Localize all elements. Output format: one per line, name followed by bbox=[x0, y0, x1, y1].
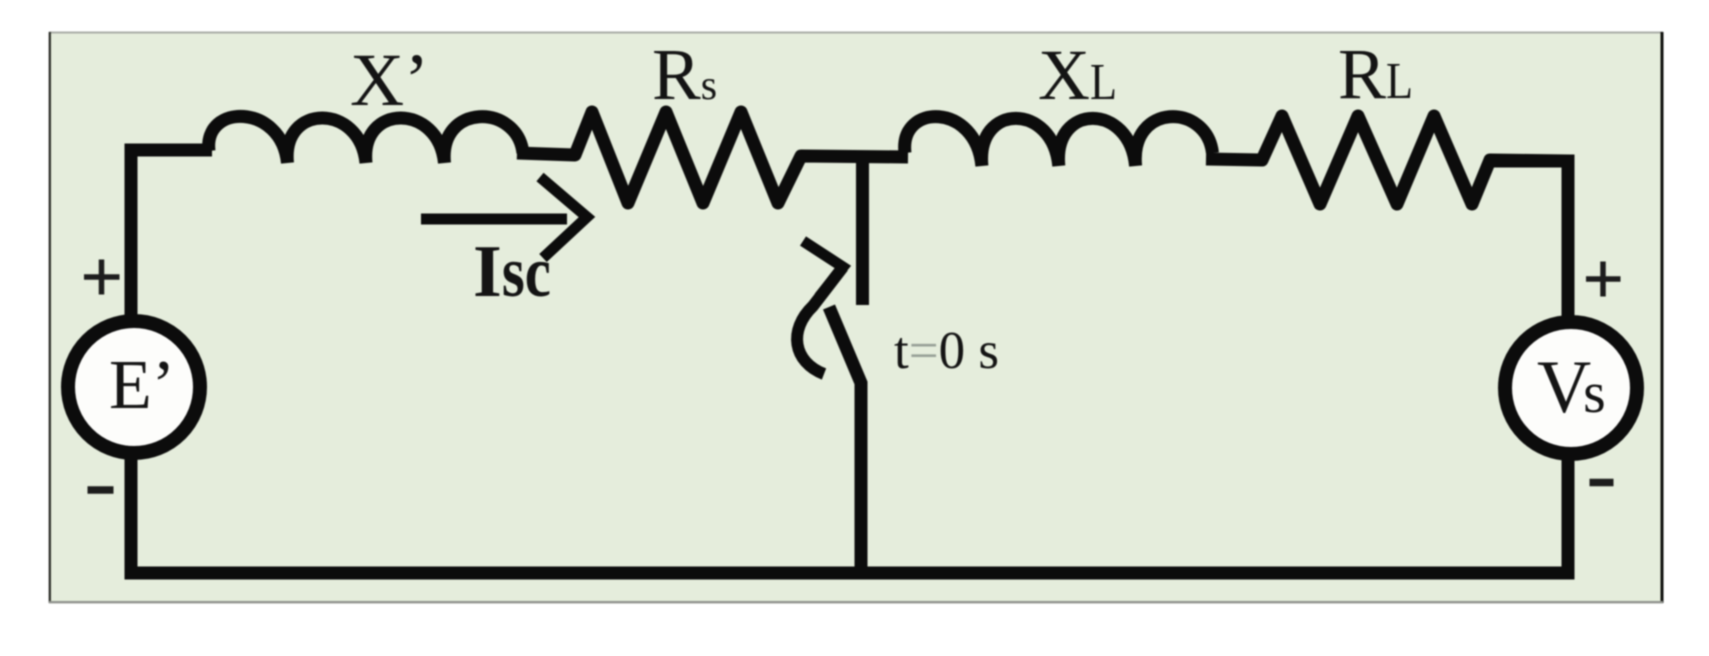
svg-text:X’: X’ bbox=[350, 39, 429, 122]
svg-text:Isc: Isc bbox=[473, 231, 551, 313]
svg-text:t=0 s: t=0 s bbox=[894, 322, 999, 380]
svg-text:E’: E’ bbox=[109, 347, 175, 424]
